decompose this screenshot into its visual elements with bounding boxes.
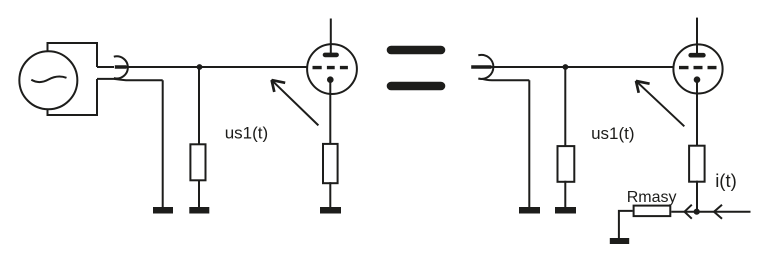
wire right segment xyxy=(696,211,750,213)
wire Rmasy to ground xyxy=(619,211,633,238)
tube V2 grid dashes xyxy=(679,66,717,69)
ground (right R3) xyxy=(555,207,576,214)
svg-text:i(t): i(t) xyxy=(715,170,737,191)
arrow us1 (left) xyxy=(271,80,318,126)
connector socket arc (left) xyxy=(114,56,128,78)
svg-text:us1(t): us1(t) xyxy=(591,124,634,143)
wire shell return (right) xyxy=(482,79,530,81)
node C (cathode bottom junction) xyxy=(694,209,700,215)
wire R2 to ground xyxy=(329,182,331,207)
wire R4 to node xyxy=(696,181,698,212)
tube V1 circle xyxy=(307,44,357,94)
wire cathode down (right) xyxy=(696,80,698,147)
arrow us1 (right) xyxy=(636,81,685,127)
wire shell return (left) xyxy=(97,79,163,80)
tube V2 plate bar xyxy=(691,53,704,58)
ground (left R1) xyxy=(189,207,209,214)
tube V1 grid dashes xyxy=(313,66,348,69)
sine wave xyxy=(31,76,66,82)
ground (Rmasy) xyxy=(610,238,629,244)
tube V1 plate bar xyxy=(325,53,337,58)
connector pin lead (left) xyxy=(97,66,114,68)
resistor R4 (right cathode) xyxy=(689,146,705,182)
ground (right source) xyxy=(519,207,540,214)
source box xyxy=(48,43,98,115)
node A (left junction) xyxy=(197,64,203,70)
tube V2 cathode dot xyxy=(694,76,701,83)
wire resistor to ground (right) xyxy=(564,181,566,207)
connector pin (right) xyxy=(471,65,491,69)
connector pin (left) xyxy=(115,65,127,69)
wire node to Rmasy xyxy=(671,211,696,213)
wire resistor to ground xyxy=(198,180,200,207)
tube V1 cathode dot xyxy=(327,76,334,83)
source circle G1 xyxy=(19,51,77,109)
current arrowhead (left of node) xyxy=(685,205,692,219)
equals sign xyxy=(391,50,441,86)
ground (left source) xyxy=(153,207,173,214)
connector socket arc (right) xyxy=(478,55,493,79)
wire cathode down (left) xyxy=(329,80,331,145)
wire main (right) xyxy=(491,66,679,68)
tube V2 plate wire xyxy=(696,18,698,55)
wire junction to resistor xyxy=(198,67,200,144)
resistor R1 (left grid leak) xyxy=(190,144,205,180)
svg-text:us1(t): us1(t) xyxy=(225,123,268,142)
svg-text:Rmasy: Rmasy xyxy=(627,189,677,206)
wire main (left) xyxy=(126,66,313,68)
wire shell down (right) xyxy=(528,80,530,207)
resistor R3 (right grid leak) xyxy=(558,146,575,182)
wire junction to resistor (right) xyxy=(564,67,566,147)
tube V2 circle xyxy=(673,44,722,93)
wire shell down (left) xyxy=(162,80,164,207)
resistor Rmasy xyxy=(634,206,671,217)
ground (left R2) xyxy=(320,207,341,214)
node B (right junction) xyxy=(563,64,569,70)
tube V1 plate wire xyxy=(330,19,332,56)
resistor R2 (left cathode) xyxy=(323,144,338,183)
current arrowhead i(t) xyxy=(714,205,722,219)
